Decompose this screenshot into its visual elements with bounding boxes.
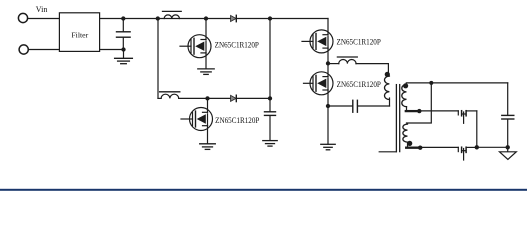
wire top rail (100, 18, 328, 20)
node branch split (156, 16, 160, 20)
node bus bottom (268, 96, 272, 100)
ground Q2 (200, 143, 216, 145)
wire bottom from filter (100, 49, 124, 51)
wire output down (507, 83, 509, 115)
ground input (123, 50, 125, 59)
inductor L1 (163, 10, 182, 12)
input terminal top (18, 13, 27, 22)
node resonant (326, 104, 330, 108)
wire S1 drain down (476, 111, 478, 147)
wire top input (28, 18, 60, 20)
node top rail right (268, 16, 272, 20)
capacitor output (502, 114, 514, 116)
capacitor Cr (328, 105, 352, 107)
transistor Q3 ZN65C1R120P (302, 30, 333, 64)
transistor Q4 ZN65C1R120P (304, 63, 334, 144)
ground bus cap (263, 140, 277, 142)
wire secondary mid lead (406, 110, 420, 112)
node switch (326, 61, 330, 65)
node output junction (429, 81, 433, 85)
ground output triangle (500, 152, 517, 160)
wire core stub (379, 151, 396, 153)
svg-text:ZN65C1R120P: ZN65C1R120P (215, 40, 260, 49)
transformer secondary winding top (402, 85, 407, 107)
svg-text:ZN65C1R120P: ZN65C1R120P (337, 38, 382, 47)
diode D2 (231, 95, 236, 101)
wire output to lower winding (407, 83, 432, 123)
node S outputs (475, 145, 479, 149)
wire rail to half bridge (327, 19, 329, 33)
node input bottom (121, 47, 125, 51)
node output bottom (506, 145, 510, 149)
wire secondary bottom lead (406, 147, 420, 149)
inductor L2 (160, 91, 180, 93)
transformer core (395, 85, 397, 152)
transformer primary winding (385, 76, 390, 99)
node bottom lead (418, 146, 422, 150)
node secondary dot bottom (407, 141, 412, 146)
svg-text:Vin: Vin (36, 5, 48, 14)
wire switch to Lr (328, 63, 339, 65)
capacitor bus (265, 111, 276, 113)
transformer secondary winding bottom (403, 124, 408, 142)
ground Q1 (198, 68, 214, 70)
node mid lead (417, 109, 421, 113)
wire bottom rail (158, 97, 161, 99)
filter box (59, 13, 99, 52)
transistor S2 sync rectifier (420, 147, 477, 160)
wire Lr to transformer (356, 64, 388, 73)
input terminal bottom (19, 45, 28, 54)
capacitor input (122, 19, 124, 32)
transistor Q2 ZN65C1R120P (181, 98, 213, 143)
wire bus vertical (269, 19, 271, 112)
footer blue line (0, 189, 527, 191)
svg-text:Filter: Filter (71, 31, 88, 40)
diode D1 (231, 16, 236, 22)
wire primary bottom lead (389, 98, 391, 106)
svg-text:ZN65C1R120P: ZN65C1R120P (215, 116, 260, 125)
node secondary dot top (403, 83, 408, 88)
wire secondary top (406, 82, 507, 84)
node M1 drain (204, 16, 208, 20)
wire bottom input (28, 49, 59, 51)
node input cap top (121, 16, 125, 20)
svg-text:ZN65C1R120P: ZN65C1R120P (337, 80, 382, 89)
ground half bridge (321, 143, 335, 145)
node primary dot (385, 72, 390, 77)
transistor Q1 ZN65C1R120P (180, 19, 211, 69)
inductor Lr (337, 56, 357, 58)
wire to output ground (477, 146, 508, 148)
transistor S1 sync rectifier (419, 111, 477, 124)
node M2 drain (205, 96, 209, 100)
wire branch vertical (157, 19, 159, 99)
